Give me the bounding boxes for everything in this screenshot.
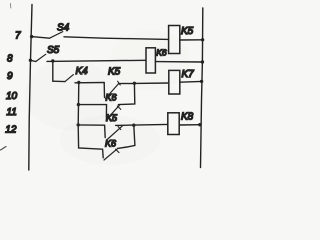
svg-text:K5: K5 bbox=[181, 26, 194, 37]
wire drop S5 to rung9 bbox=[52, 60, 54, 81]
node rung8 branch bbox=[51, 59, 54, 62]
node level2 left bbox=[77, 123, 80, 126]
contact K6 level1 barb bbox=[117, 106, 120, 109]
svg-text:7: 7 bbox=[15, 30, 21, 41]
svg-text:K8: K8 bbox=[181, 112, 194, 123]
wire VD0 down right bbox=[118, 83, 134, 104]
wire stub down V0 bbox=[103, 83, 105, 98]
wire level3 left rail corner bbox=[79, 148, 103, 150]
left rail vertical bbox=[77, 83, 80, 148]
contact K6 level1 blade bbox=[106, 105, 120, 120]
paper mottling bbox=[25, 30, 190, 165]
stray mark bottom left bbox=[1, 147, 7, 151]
coil K5 bbox=[169, 26, 180, 54]
right bus bbox=[201, 8, 203, 168]
wire rung8 right bbox=[155, 61, 202, 63]
contact K6 level3 barb bbox=[116, 149, 119, 152]
wire VD2 down right bbox=[118, 125, 135, 148]
node rung9 right bbox=[200, 80, 203, 83]
wire stub down V3 bbox=[102, 149, 105, 158]
node rung8 left bbox=[29, 59, 32, 62]
wire level2 right RW2 bbox=[116, 124, 168, 125]
svg-text:11: 11 bbox=[6, 107, 16, 118]
wire rung9 left stub bbox=[53, 80, 65, 82]
wire rung9 right bbox=[119, 82, 169, 85]
node rung7 right bbox=[201, 38, 204, 41]
node level2 right bbox=[198, 123, 201, 126]
wire level1 left LW1 bbox=[78, 104, 106, 106]
left bus bbox=[29, 5, 32, 171]
wire rung9 to bus bbox=[180, 80, 202, 83]
svg-text:9: 9 bbox=[7, 71, 13, 82]
contact K5 rung9 blade bbox=[106, 83, 119, 98]
svg-text:S5: S5 bbox=[47, 45, 60, 56]
wire rung9 main bbox=[75, 82, 104, 84]
svg-text:8: 8 bbox=[7, 53, 13, 64]
svg-text:12: 12 bbox=[5, 124, 17, 135]
switch S4 bbox=[50, 32, 63, 39]
wire rung8 left stub bbox=[30, 60, 35, 61]
svg-text:10: 10 bbox=[6, 91, 18, 102]
wire rung7 right bbox=[180, 39, 203, 41]
wire rung7 main bbox=[64, 37, 169, 40]
wire level2 left LW2 bbox=[78, 124, 104, 126]
coil K7 bbox=[169, 70, 180, 94]
stray mark top left bbox=[10, 4, 12, 9]
contact K5 rung9 barb bbox=[118, 81, 121, 85]
node level2 drop bbox=[132, 124, 135, 127]
node rung7 left bbox=[30, 35, 33, 38]
contact K6 level3 blade bbox=[104, 149, 118, 160]
contact K4 bbox=[65, 75, 73, 82]
node A rung9 bbox=[77, 81, 80, 84]
node level1 left bbox=[77, 103, 80, 106]
node rung9 drop bbox=[133, 82, 136, 85]
wire level2 to bus bbox=[179, 124, 200, 126]
wire rung8 main bbox=[47, 60, 146, 61]
contact K5 level2 blade bbox=[107, 126, 122, 140]
wire stub down V1 bbox=[105, 105, 107, 119]
wire rung7 left stub bbox=[32, 37, 50, 39]
wire stub down V2 bbox=[104, 125, 107, 137]
switch S5 bbox=[36, 54, 46, 61]
coil K6 bbox=[146, 48, 155, 73]
contact K5 level2 barb bbox=[118, 126, 121, 129]
node rung8 right bbox=[201, 60, 204, 63]
coil K8 bbox=[168, 113, 179, 135]
svg-text:S4: S4 bbox=[57, 23, 70, 34]
